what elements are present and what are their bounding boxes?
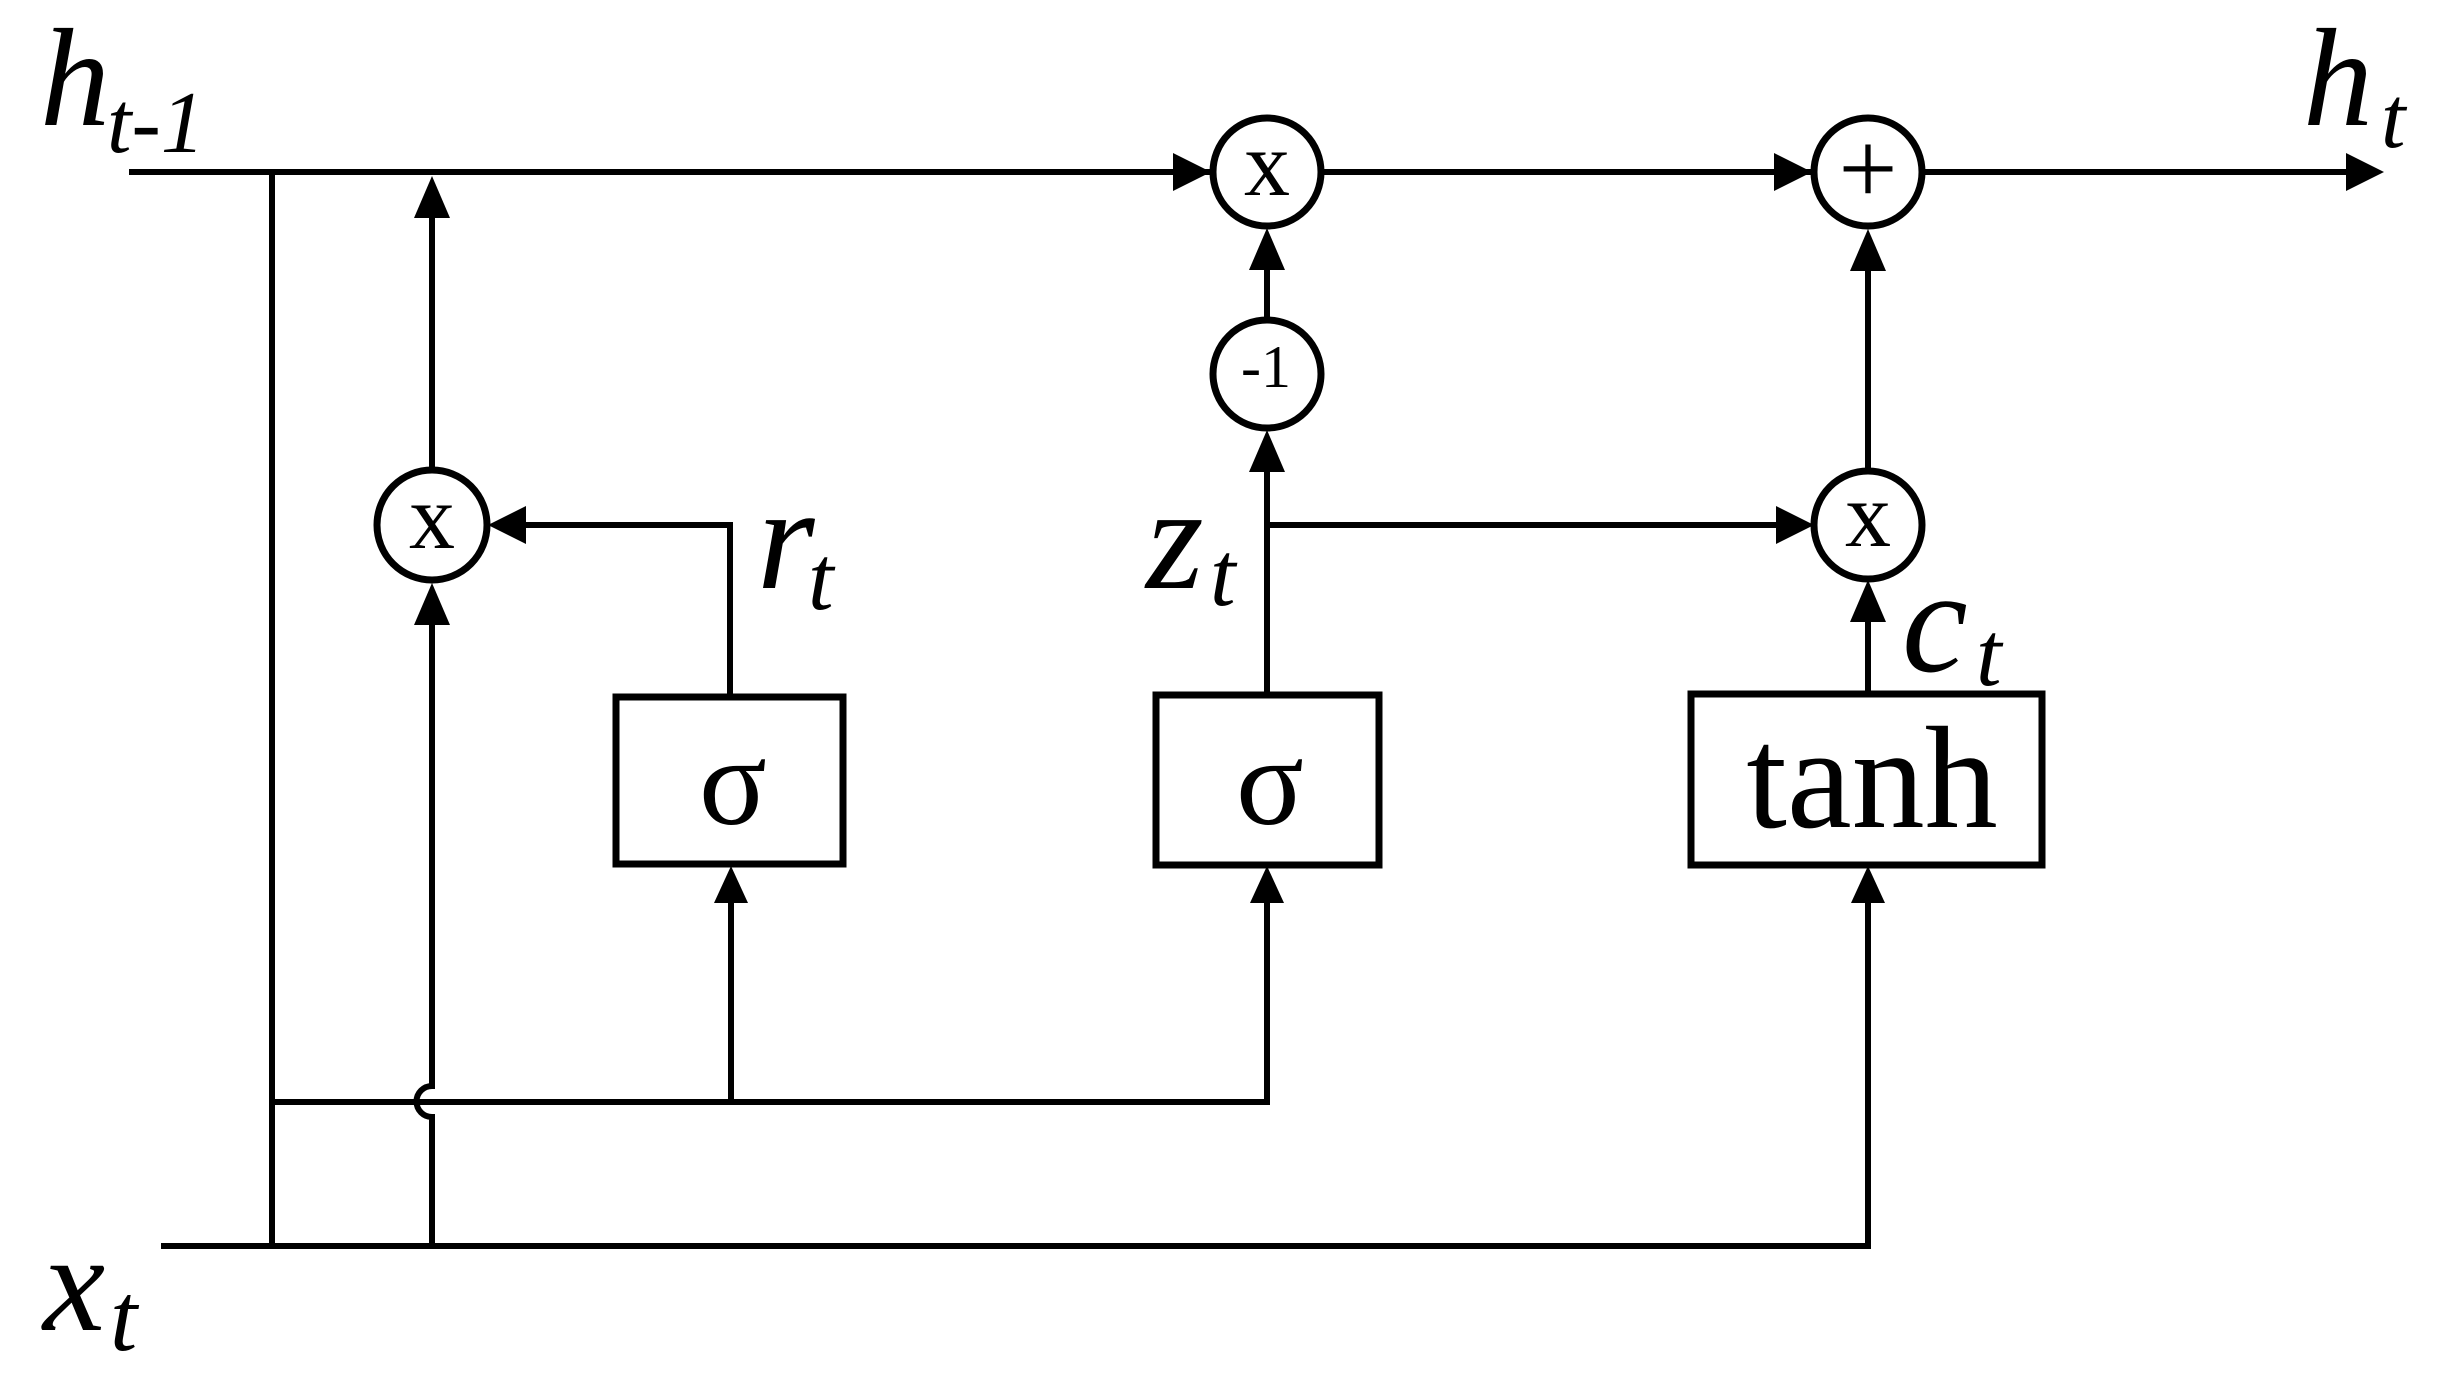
svg-text:c: c <box>1902 540 1968 704</box>
arrowhead up into tanh bottom <box>1851 866 1885 903</box>
svg-text:h: h <box>2303 1 2373 156</box>
svg-text:t-1: t-1 <box>107 75 205 172</box>
svg-text:t: t <box>110 1264 140 1372</box>
wire: gate input bus y=1102 from left vertical to sigma2 <box>272 880 1267 1102</box>
svg-text:x: x <box>41 1206 105 1361</box>
wire: top h line from h_t-1 to output arrow <box>129 169 2350 175</box>
wire: -1 circle top up to top x-circle <box>1264 240 1270 320</box>
svg-text:h: h <box>40 1 110 156</box>
wire: leftmost vertical from top line down to bottom x_t line <box>269 172 275 1246</box>
op node: top multiply circle <box>1213 118 1321 226</box>
arrowhead up into right x-circle bottom <box>1850 580 1886 622</box>
arrowhead up into left x-circle bottom <box>414 583 450 625</box>
op node: -1 circle <box>1213 320 1321 428</box>
arrowhead up into plus circle bottom <box>1850 229 1886 271</box>
op node: plus circle <box>1814 118 1922 226</box>
wire: z_t branch to right x-circle <box>1267 522 1800 528</box>
svg-text:σ: σ <box>699 713 767 852</box>
svg-text:t: t <box>1210 523 1238 625</box>
svg-text:+: + <box>1838 110 1897 227</box>
arrowhead up into top line at x=432 <box>414 176 450 218</box>
box: sigma gate 1 <box>616 697 843 864</box>
arrowhead up into sigma2 bottom <box>1250 866 1284 903</box>
wire: branch up to sigma1 bottom <box>728 880 734 1102</box>
arrowhead right into plus circle on h line <box>1774 153 1812 191</box>
arrowhead right into right x-circle <box>1776 506 1814 544</box>
svg-text:tanh: tanh <box>1746 697 1997 859</box>
arrowhead up into sigma1 bottom <box>714 866 748 903</box>
box: tanh <box>1691 694 2042 865</box>
wire: right x-circle top up to plus circle <box>1865 242 1871 473</box>
svg-text:z: z <box>1144 457 1204 621</box>
wire: tanh top up to right x-circle <box>1865 596 1871 694</box>
wire: r_t from sigma1 top up then left into left x-circle <box>500 525 730 697</box>
svg-text:t: t <box>1976 603 2004 705</box>
wire: z_t vertical from sigma2 top up to -1 circle <box>1264 445 1270 695</box>
svg-text:x: x <box>409 466 455 568</box>
op node: left multiply circle <box>377 470 487 580</box>
svg-text:t: t <box>2381 70 2408 167</box>
svg-text:x: x <box>1845 464 1891 566</box>
svg-text:t: t <box>808 527 836 629</box>
wire: left x-circle up to top line (arrow up) <box>429 210 435 474</box>
box: sigma gate 2 <box>1156 695 1379 865</box>
wire: bottom x_t line to tanh <box>161 880 1868 1246</box>
arrowhead right at output h_t <box>2346 153 2384 191</box>
arrowhead up into top x-circle bottom <box>1249 228 1285 270</box>
op node: right multiply circle <box>1814 471 1922 579</box>
arrowhead left into left x-circle <box>488 506 526 544</box>
svg-text:-1: -1 <box>1241 334 1291 400</box>
arrowhead up into -1 circle bottom <box>1249 430 1285 472</box>
svg-text:σ: σ <box>1236 713 1304 852</box>
wire: from bottom line up to left x-circle, with hop over y=1102 line <box>417 600 433 1246</box>
arrowhead right into top x-circle on h line <box>1173 153 1211 191</box>
svg-text:x: x <box>1244 113 1290 215</box>
